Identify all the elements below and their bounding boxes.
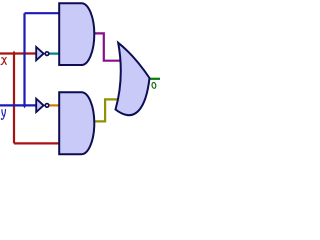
- wire input x (red horizontal): [0, 52, 37, 54]
- label x: [1, 58, 6, 65]
- wire AND2 output (olive): [94, 99, 117, 121]
- wire AND1 output (purple): [93, 33, 120, 60]
- wire x branch to AND2: [14, 142, 59, 144]
- and-gate AND1: [59, 3, 94, 65]
- or-gate OR1: [116, 43, 150, 115]
- wire x branch vertical: [13, 54, 15, 144]
- label y: [1, 110, 5, 120]
- inverter NOT2 triangle: [36, 99, 43, 112]
- inverter NOT2 bubble: [45, 104, 49, 108]
- label o: [152, 82, 157, 88]
- wire NOT2 output (orange): [49, 104, 59, 106]
- wire input y (blue horizontal): [0, 104, 37, 106]
- wire output o (green): [148, 78, 160, 80]
- inverter NOT1 triangle: [36, 47, 43, 60]
- node junction on x: [12, 51, 16, 57]
- wire y branch to AND1: [25, 12, 60, 14]
- wire NOT1 output (teal): [49, 52, 59, 54]
- node junction on y: [23, 103, 27, 109]
- and-gate AND2: [59, 92, 94, 154]
- wire y branch vertical: [23, 13, 25, 105]
- inverter NOT1 bubble: [45, 52, 49, 56]
